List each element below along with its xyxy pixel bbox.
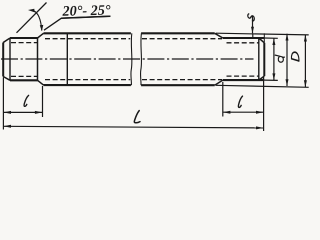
right end face	[263, 43, 265, 76]
shank dashed bottom left of break	[45, 79, 130, 81]
arrowhead l left start	[3, 111, 11, 114]
extension line right runout for l	[222, 82, 224, 117]
s gap tick	[252, 33, 254, 38]
extension line left end for l and L	[2, 78, 4, 130]
left chamfer diagonal bottom	[3, 77, 10, 81]
label l right (script ell)	[238, 96, 242, 107]
left end face	[2, 43, 4, 77]
dimension line L	[3, 126, 263, 128]
extension line thread bottom for d	[264, 79, 278, 81]
arrowhead d bottom	[272, 73, 275, 80]
extension line shank top for D and s	[216, 33, 309, 35]
d dimension line with arrows	[273, 38, 275, 80]
shank dashed top right of break	[142, 38, 222, 40]
right end face extension up	[263, 33, 265, 43]
right runout taper top	[215, 33, 223, 38]
arrowhead D bottom	[304, 80, 307, 87]
middle dimension line with arrows	[286, 34, 288, 86]
arrowhead angle arc lower	[40, 25, 44, 31]
dimension line l right	[223, 111, 264, 113]
left thread root dashed bottom	[11, 75, 38, 77]
label L (italic)	[134, 111, 140, 123]
left thread root dashed top	[11, 42, 38, 44]
left thread bottom outline	[10, 79, 38, 81]
extension line shank bottom for D	[216, 85, 309, 87]
left thread runout line	[37, 38, 39, 80]
shank bottom outline right of break	[141, 84, 215, 86]
extension line left runout for l	[42, 86, 44, 117]
dimension line l left	[3, 111, 42, 113]
arrowhead mid top	[286, 34, 289, 41]
right thread root dashed top	[227, 42, 259, 44]
shank dashed bottom right of break	[142, 79, 222, 81]
arrowhead l right end	[256, 111, 264, 114]
label s (rotated, drawn)	[248, 14, 254, 22]
extension line thread top for d	[264, 37, 278, 39]
arrowhead L left	[3, 125, 11, 128]
shank boundary line at x 67	[66, 33, 68, 85]
label d (rotated, drawn)	[275, 55, 284, 62]
D dimension line with arrows	[304, 35, 306, 87]
left chamfer line	[9, 38, 11, 80]
s leader arrow shaft	[252, 16, 254, 34]
angle callout slant line	[17, 3, 47, 33]
shank bottom outline left of break	[44, 84, 131, 86]
extension line right end for l and L	[263, 77, 265, 132]
shank top outline right of break	[141, 32, 215, 34]
right thread bottom outline	[223, 79, 264, 81]
left runout taper bottom	[38, 80, 44, 85]
right runout taper bottom	[215, 80, 223, 85]
label D (rotated, drawn)	[291, 52, 298, 61]
label l left (script ell)	[24, 95, 29, 106]
centerline	[1, 58, 254, 60]
arrowhead L right	[256, 126, 264, 129]
right chamfer diagonal top	[259, 38, 265, 43]
break line left	[130, 33, 133, 85]
arrowhead angle arc upper	[28, 9, 35, 13]
arrowhead l left end	[35, 111, 43, 114]
right chamfer diagonal bottom	[259, 76, 265, 80]
right thread root dashed bottom	[227, 75, 259, 77]
right thread top outline	[223, 37, 264, 39]
arrowhead s	[251, 27, 254, 33]
arrowhead D top	[304, 35, 307, 42]
break line right	[140, 33, 143, 85]
left runout taper top	[38, 33, 44, 38]
left thread top outline	[10, 37, 38, 39]
arrowhead d top	[272, 38, 275, 45]
right chamfer line	[258, 38, 260, 80]
angle callout arc	[34, 11, 42, 31]
shank dashed top left of break	[45, 38, 130, 40]
shank top outline left of break	[44, 32, 131, 34]
label 20-25 degrees	[61, 3, 111, 20]
callout leader line	[44, 16, 110, 30]
arrowhead mid bottom	[286, 79, 289, 86]
left chamfer diagonal top	[3, 38, 10, 43]
arrowhead l right start	[223, 111, 231, 114]
